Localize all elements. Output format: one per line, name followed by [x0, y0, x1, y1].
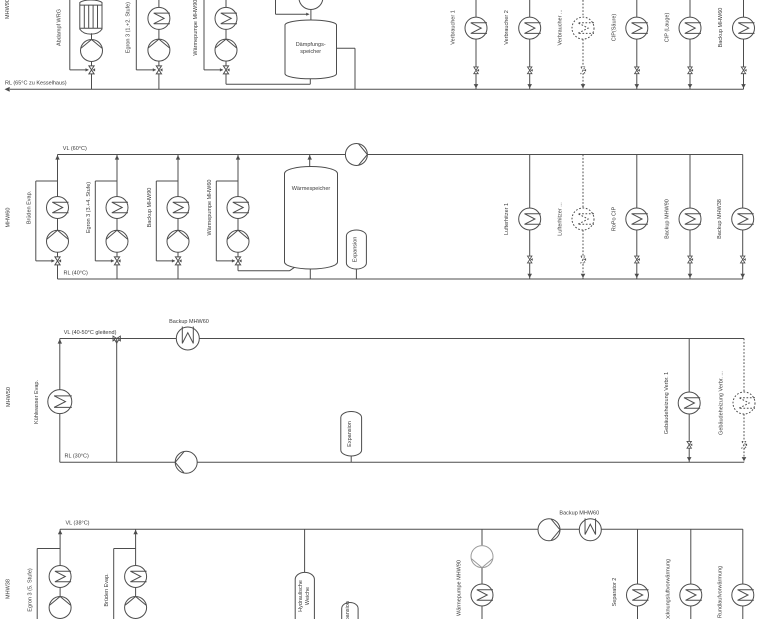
- svg-text:MHW60: MHW60: [6, 208, 12, 228]
- svg-text:Lufterhitzer ...: Lufterhitzer ...: [558, 202, 564, 236]
- svg-text:Verbraucher 2: Verbraucher 2: [504, 10, 510, 45]
- svg-text:Trocknungsluftvorwärmung: Trocknungsluftvorwärmung: [665, 559, 671, 619]
- svg-text:Wärmepumpe MHW90: Wärmepumpe MHW90: [193, 0, 199, 56]
- svg-text:CIP (Lauge): CIP (Lauge): [665, 13, 671, 43]
- svg-text:Verbraucher ...: Verbraucher ...: [558, 9, 564, 46]
- svg-text:Brüden Evap.: Brüden Evap.: [104, 573, 110, 607]
- svg-text:RL (40°C): RL (40°C): [64, 270, 88, 276]
- svg-text:Egron 3 (3.+4. Stufe): Egron 3 (3.+4. Stufe): [86, 182, 92, 233]
- svg-text:MHW90: MHW90: [5, 0, 11, 19]
- svg-text:Separator 2: Separator 2: [612, 578, 618, 607]
- svg-text:Dämpfungs-: Dämpfungs-: [296, 42, 326, 48]
- svg-text:MHW38: MHW38: [6, 579, 12, 599]
- svg-text:Backup MHW60: Backup MHW60: [718, 8, 724, 48]
- svg-text:Expansion: Expansion: [347, 421, 353, 447]
- svg-text:Rundlaufvorwärmung: Rundlaufvorwärmung: [717, 566, 723, 618]
- svg-text:speicher: speicher: [300, 49, 321, 55]
- svg-text:Backup MHW90: Backup MHW90: [665, 199, 671, 239]
- svg-text:Backup MHW60: Backup MHW60: [559, 511, 599, 517]
- svg-text:Expansion: Expansion: [352, 237, 358, 263]
- svg-text:Egron 3 (5. Stufe): Egron 3 (5. Stufe): [28, 568, 34, 612]
- svg-text:CIP(Säure): CIP(Säure): [611, 14, 617, 42]
- svg-text:Kühlwasser Evap.: Kühlwasser Evap.: [34, 380, 40, 424]
- svg-text:Backup MHW90: Backup MHW90: [147, 188, 153, 228]
- svg-text:VL (38°C): VL (38°C): [66, 521, 90, 527]
- svg-text:Gebäudeheizung Verbr. 1: Gebäudeheizung Verbr. 1: [664, 372, 670, 434]
- svg-text:Expansion: Expansion: [345, 601, 351, 619]
- svg-text:Wärmepumpe MHW90: Wärmepumpe MHW90: [457, 560, 463, 616]
- svg-text:MHW50: MHW50: [6, 387, 12, 407]
- svg-text:Wärmespeicher: Wärmespeicher: [292, 186, 331, 192]
- svg-text:VL (60°C): VL (60°C): [63, 146, 87, 152]
- svg-text:Gebäudeheizung Verbr. ...: Gebäudeheizung Verbr. ...: [718, 371, 724, 435]
- svg-text:Abdampf WRG: Abdampf WRG: [57, 9, 63, 46]
- svg-text:Wärmepumpe MHW60: Wärmepumpe MHW60: [207, 180, 213, 236]
- svg-text:RL (30°C): RL (30°C): [65, 454, 89, 460]
- svg-text:Brüden Evap.: Brüden Evap.: [26, 190, 32, 224]
- svg-text:Backup MHW38: Backup MHW38: [717, 199, 723, 239]
- svg-text:Egron 3 (1.+2. Stufe): Egron 3 (1.+2. Stufe): [125, 2, 131, 53]
- svg-text:Backup MHW60: Backup MHW60: [169, 319, 209, 325]
- svg-text:RoPo CIP: RoPo CIP: [611, 206, 617, 231]
- svg-text:Lufterhitzer 1: Lufterhitzer 1: [504, 203, 510, 235]
- svg-text:VL (40-50°C gleitend): VL (40-50°C gleitend): [64, 330, 117, 336]
- svg-text:RL (65°C zu Kesselhaus): RL (65°C zu Kesselhaus): [5, 81, 67, 87]
- svg-text:Verbraucher 1: Verbraucher 1: [451, 10, 457, 45]
- svg-text:Weiche: Weiche: [305, 587, 311, 605]
- svg-text:Hydraulische: Hydraulische: [298, 580, 304, 612]
